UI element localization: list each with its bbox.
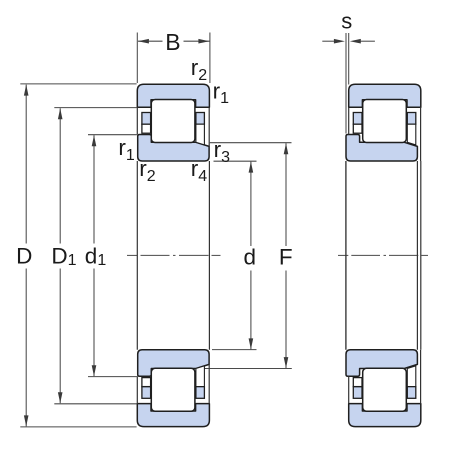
- D extension line bottom: [20, 426, 136, 428]
- inner ring (left view, top): [138, 135, 209, 162]
- inner ring (right view, bottom): [346, 350, 417, 377]
- D1 extension line top: [54, 107, 136, 109]
- inner ring (left view, bottom): [138, 350, 209, 377]
- F extension line top (also r3 upper reference): [210, 142, 292, 144]
- D1 dimension line: [59, 108, 61, 243]
- svg-text:s: s: [341, 9, 352, 34]
- d dimension line: [250, 162, 252, 246]
- F extension line bottom: [202, 368, 292, 370]
- d extension line bottom: [212, 349, 257, 351]
- svg-text:F: F: [279, 245, 293, 270]
- centerline left view: [127, 254, 221, 256]
- F dimension line: [285, 143, 287, 246]
- B extension line left: [136, 33, 138, 84]
- right view face lines between sections: [345, 161, 347, 350]
- outer ring (right view, top): [349, 84, 421, 107]
- centerline right view: [338, 254, 428, 256]
- cage (left view, top): [142, 113, 205, 145]
- face gap lines (right view, bottom): [348, 376, 350, 403]
- d extension line top (also r3 lower reference): [214, 160, 257, 162]
- d1 extension line top: [88, 134, 137, 136]
- D dimension line: [25, 85, 27, 244]
- d1 dimension line: [93, 135, 95, 243]
- d1 extension line bottom: [88, 376, 137, 378]
- svg-text:d: d: [243, 245, 256, 270]
- outer ring (left view, bottom): [137, 404, 209, 427]
- B dimension line with arrows: [138, 40, 163, 42]
- inner ring (right view, top): [346, 135, 417, 162]
- face gap lines (right view, top): [348, 107, 350, 134]
- svg-text:D: D: [16, 244, 32, 269]
- outer ring (left view, top): [137, 84, 209, 107]
- roller (left view, bottom): [151, 368, 195, 411]
- svg-text:B: B: [165, 29, 180, 55]
- roller (right view, top): [363, 100, 407, 143]
- roller (left view, top): [151, 100, 195, 143]
- s extension line inner-ring face: [345, 33, 347, 134]
- B extension line right: [209, 33, 211, 84]
- cage (right view, bottom): [353, 366, 416, 398]
- cage (left view, bottom): [142, 366, 205, 398]
- face gap lines (left view, bottom): [136, 376, 138, 403]
- face gap lines (left view, top): [136, 107, 138, 134]
- D extension line top: [20, 83, 136, 85]
- s dimension line with arrows: [322, 40, 335, 42]
- D1 extension line bottom: [54, 403, 136, 405]
- outer ring (right view, bottom): [349, 404, 421, 427]
- roller (right view, bottom): [363, 368, 407, 411]
- left view face lines between sections: [136, 161, 138, 350]
- cage (right view, top): [353, 113, 416, 145]
- s extension line outer-ring face: [348, 33, 350, 85]
